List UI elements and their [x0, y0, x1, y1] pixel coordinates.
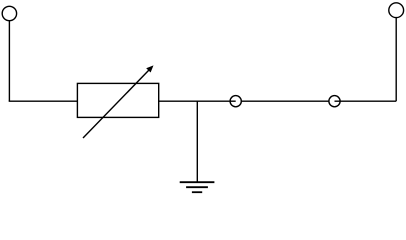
terminal T2 (top-right) [389, 3, 404, 18]
wire right vertical [395, 17, 397, 101]
wire J1 to J2 [241, 100, 329, 102]
ground [180, 182, 215, 192]
connector J2 [329, 96, 340, 107]
connector J1 [230, 96, 241, 107]
wire resistor to connector J1 [159, 100, 236, 102]
terminal T1 (top-left) [2, 6, 16, 20]
variable resistor R1 body [77, 83, 158, 117]
wire left horizontal [9, 100, 78, 102]
variable resistor R1 arrow [83, 65, 154, 138]
wire left vertical [8, 21, 10, 102]
wire J2 to right [335, 100, 397, 102]
wire junction to ground [196, 101, 198, 182]
